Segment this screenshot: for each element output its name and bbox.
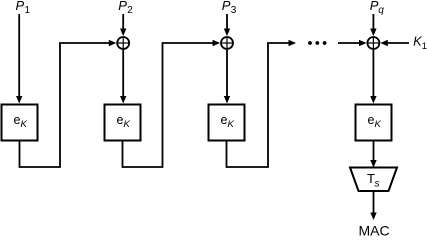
wire Pq to XOR q [370,14,376,36]
wire K1 to XOR q [380,40,409,46]
label P3 [222,0,237,16]
svg-text:s: s [375,179,380,190]
svg-text:K: K [124,119,131,130]
wire P2 to XOR 2 [120,14,126,36]
wire XOR 2 to eK box 2 [120,50,126,104]
svg-text:K: K [21,119,28,130]
svg-text:1: 1 [422,41,427,52]
label P1 [16,0,31,16]
wire P3 to XOR 3 [224,14,230,36]
svg-text:1: 1 [25,5,31,16]
svg-text:K: K [375,119,382,130]
svg-text:e: e [221,113,228,127]
svg-text:P: P [118,0,127,13]
label MAC [358,223,389,239]
truncation block Ts [350,168,397,192]
xor adder stage 2 [117,37,129,49]
block cipher eK stage 3 [209,105,245,141]
wire feedback stage 3 to ellipsis [227,40,297,167]
xor adder stage q [367,37,379,49]
block cipher eK stage q [356,105,392,141]
wire XOR q to eK box q [370,50,376,104]
wire feedback stage 1 to XOR 2 [20,40,117,167]
svg-text:q: q [378,5,384,16]
svg-text:e: e [14,113,21,127]
svg-text:3: 3 [231,5,237,16]
label K1 [413,35,427,53]
svg-text:K: K [228,119,235,130]
block cipher eK stage 2 [105,105,141,141]
label Pq [370,0,385,16]
svg-text:2: 2 [127,5,133,16]
wire P1 to eK box 1 [16,14,22,104]
wire feedback stage 2 to XOR 3 [123,40,221,167]
svg-text:P: P [16,0,25,13]
xor adder stage 3 [221,37,233,49]
svg-text:e: e [117,113,124,127]
wire XOR 3 to eK box 3 [224,50,230,104]
ellipsis dots [308,41,326,45]
svg-text:P: P [222,0,231,13]
label P2 [118,0,133,16]
wire eK box q to Ts [370,142,376,168]
wire Ts to MAC [370,191,376,220]
svg-text:e: e [368,113,375,127]
block cipher eK stage 1 [2,105,38,141]
wire ellipsis to XOR q [338,40,367,46]
svg-text:MAC: MAC [358,223,389,239]
